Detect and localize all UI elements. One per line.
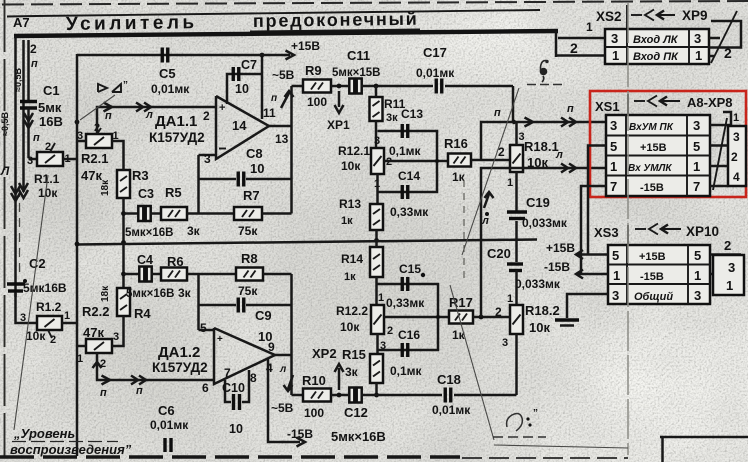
svg-text:С12: С12 [344,405,368,420]
svg-text:5мк: 5мк [38,100,62,115]
resistor R2.1 [86,134,112,148]
svg-text:10: 10 [250,161,264,176]
wire C3 line [124,212,140,215]
svg-text:R2.2: R2.2 [82,304,109,319]
svg-text:-15В: -15В [287,427,313,441]
svg-text:3: 3 [374,135,380,147]
svg-text:С7: С7 [241,58,257,72]
node ch2 to XS1 [481,168,606,317]
svg-text:R8: R8 [241,251,258,266]
svg-text:5мк×16В: 5мк×16В [125,227,173,239]
input line arrows DA1.2 [102,376,111,385]
wire XS1 +15V [588,146,606,255]
capacitor C17 [435,79,438,94]
svg-text:С5: С5 [159,66,176,81]
svg-text:3: 3 [502,337,508,349]
svg-text:ДА1.2: ДА1.2 [158,344,200,361]
svg-text:5: 5 [612,248,619,263]
wire C4 line [124,273,141,276]
svg-text:R15: R15 [342,347,366,362]
border heavy top [14,31,558,36]
wire R2.2 to R4 [112,316,124,346]
svg-text:R6: R6 [167,254,184,269]
op-amp DA1.1 [216,96,269,159]
pencil diagonal lower [450,285,494,440]
svg-text:0,01мк: 0,01мк [150,418,189,432]
wire C8 line [199,178,237,181]
wire R15 to outline [375,383,378,395]
svg-text:2: 2 [387,325,393,337]
wire bus to R2.2 [77,345,86,348]
svg-text:1: 1 [77,353,83,365]
wiper line R12.2 to R17 [384,316,449,319]
title2 underline [250,30,420,32]
wire R18.1 to C19 [515,172,518,211]
capacitor C10 loop [225,380,231,402]
svg-text:ХР10: ХР10 [686,224,719,239]
svg-text:ХS2: ХS2 [596,9,622,24]
C13 C14 loop [378,131,438,192]
svg-text:8: 8 [250,371,257,385]
resistor R5 [161,207,187,220]
svg-text:”: ” [533,408,538,419]
op-amp DA1.2 output [275,354,292,357]
trimmer R18.2 [510,305,523,334]
supply pin 11 wire [261,55,264,119]
svg-text:~5В: ~5В [271,401,294,415]
wire R7 to out [262,212,292,215]
wire XS2 pin2 [556,54,605,57]
svg-text:С17: С17 [423,45,447,60]
node ch1 to XS1 [481,122,606,160]
svg-text:1: 1 [612,48,619,63]
svg-text:≈0,5В: ≈0,5В [0,112,10,136]
svg-text:13: 13 [275,132,289,146]
svg-text:9: 9 [268,340,275,354]
svg-text:R18.2: R18.2 [525,303,560,318]
trimmer R12.1 [371,148,384,174]
capacitor C7 loop [227,74,262,104]
svg-text:С13: С13 [401,107,423,121]
svg-text:Л: Л [0,164,10,178]
resistor R1.1 [37,152,63,166]
wire C9 to out [246,304,292,307]
svg-text:1: 1 [64,310,70,322]
test point arrow mid [484,194,489,208]
svg-text:5мк16В: 5мк16В [23,281,67,295]
svg-text:С3: С3 [138,187,154,201]
svg-text:10к: 10к [340,320,360,334]
svg-text:-15В: -15В [544,260,570,274]
wiper R2.2 down [97,353,214,380]
svg-text:л: л [279,364,287,375]
svg-text:С6: С6 [158,403,175,418]
wire C2 to R1.2 [16,293,38,323]
svg-text:R10: R10 [302,373,326,388]
svg-text:2: 2 [724,238,731,253]
connector XP9 pins [709,37,720,40]
svg-text:п: п [271,93,277,104]
corner down to node [512,86,515,122]
wire C17 to corner [445,85,513,88]
svg-text:3: 3 [612,288,619,303]
table XS2 [605,29,709,64]
annotation diagonal level [14,175,48,430]
wire C9 line [199,304,237,307]
svg-text:0,33мк: 0,33мк [386,296,425,310]
common mid line [77,240,537,245]
svg-text:0,033мк: 0,033мк [522,216,568,230]
border heavy corner right [555,31,558,57]
border heavy left vertical [14,36,17,283]
svg-text:10: 10 [235,82,249,96]
svg-text:3: 3 [20,312,26,324]
svg-text:5мк×15В: 5мк×15В [332,67,380,79]
resistor R9 [303,80,331,93]
bass squiggle [507,414,523,431]
clef squiggle [540,68,548,76]
svg-text:5мк×16В: 5мк×16В [331,429,386,444]
svg-text:+15В: +15В [640,142,667,154]
svg-text:п: п [494,107,501,119]
svg-text:R17: R17 [449,295,473,310]
svg-text:R13: R13 [339,197,361,211]
wire R1.1 to bus [63,158,77,161]
svg-text:л: л [481,215,489,227]
svg-text:R9: R9 [305,63,322,78]
svg-text:С1: С1 [43,83,60,98]
svg-text:ХР9: ХР9 [682,8,708,23]
wire R12.1 to R13 [376,174,379,204]
connector XS3 symbol [635,228,646,230]
wire C19 to midline [515,221,518,262]
connector XP10 pins [710,253,741,256]
capacitor C20 [507,262,523,265]
connector XP8 pins [710,124,731,127]
connector XS2 symbol [631,14,642,16]
resistor R16 [448,154,471,167]
svg-text:л: л [555,149,563,161]
annotation line head [80,95,115,120]
pencil diagonal upper [462,88,519,255]
svg-text:R5: R5 [165,185,182,200]
svg-text:3к: 3к [178,286,192,300]
input line arrows DA1.1 [104,103,113,112]
resistor R7 [234,207,262,220]
svg-text:7: 7 [224,366,231,380]
resistor R6 [161,268,187,281]
svg-text:С20: С20 [487,246,511,261]
svg-text:R14: R14 [341,252,363,266]
capacitor C2 [7,282,25,285]
svg-text:R1.2: R1.2 [36,300,62,314]
svg-text:предоконечный: предоконечный [253,9,419,31]
wire C20 to R18.2 [515,270,518,305]
svg-text:Вход ЛК: Вход ЛК [633,34,679,46]
svg-text:Вход ПК: Вход ПК [633,51,679,63]
svg-text:2: 2 [203,109,210,123]
fold line vertical [627,3,629,455]
wiper line R12.1 to R16 [384,160,448,163]
capacitor C13 [401,124,404,138]
svg-text:1к: 1к [344,271,356,283]
svg-text:„Уровень: „Уровень [13,426,75,441]
svg-text:6: 6 [202,381,209,395]
svg-text:R3: R3 [132,168,149,183]
capacitor C3 [138,206,143,221]
svg-text:3к: 3к [187,224,201,238]
capacitor C1 [27,40,30,101]
wire C2 feed [14,283,17,297]
svg-text:Общий: Общий [634,291,673,303]
svg-text:1: 1 [507,177,513,189]
svg-text:10: 10 [229,422,243,436]
svg-text:75к: 75к [238,284,258,298]
border bottom dashed [0,455,460,459]
wire C1 to R1.1 [29,158,38,161]
resistor R2.2 [86,339,112,353]
capacitor C4 [139,267,144,282]
frame left edge [4,0,6,458]
op-amp DA1.2 [214,328,275,384]
svg-text:3: 3 [733,130,740,144]
svg-text:5: 5 [610,139,617,154]
capacitor C5 [161,48,164,63]
svg-text:воспроизведения”: воспроизведения” [10,442,132,457]
capacitor C14 [401,185,404,199]
svg-text:100: 100 [307,95,327,109]
svg-text:С10: С10 [222,381,245,395]
C15 C16 loop [378,284,439,350]
wire C8 to out [246,178,292,181]
wire R2.1 to R3 [112,141,124,170]
svg-text:47к: 47к [83,325,104,340]
capacitor C11 [349,79,354,94]
wire out to R10 [292,394,304,397]
svg-text:3: 3 [610,118,617,133]
border top dashed edge [2,1,748,5]
svg-text:С14: С14 [398,169,420,183]
resistor R8 [236,268,263,281]
wire bus to R2.1 [77,140,86,143]
svg-text:18к: 18к [100,285,111,302]
svg-text:-15В: -15В [640,271,664,283]
stray dot [421,273,425,277]
title underline thin [7,15,36,18]
wire R5 to node [187,212,199,215]
resistor R15 [370,354,383,383]
wire R10 to C12 [331,394,348,397]
test point XP2 [338,368,341,390]
svg-text:5: 5 [694,248,701,263]
node vertical pin5 [197,274,200,330]
ground symbol [555,318,579,321]
+15V rail [578,253,608,256]
svg-text:3: 3 [694,31,701,46]
svg-text:С15: С15 [399,262,421,276]
svg-text:л: л [145,109,153,121]
-15V rail [578,273,608,276]
resistor R10 [303,389,331,402]
svg-text:1: 1 [733,112,739,124]
dash under clef [527,84,562,86]
highlight red box [590,91,746,197]
wire Obshij ground [567,294,608,318]
svg-text:3: 3 [27,155,33,167]
svg-text:п: п [31,58,38,70]
svg-text:ХS1: ХS1 [595,99,620,114]
svg-text:R2.1: R2.1 [81,151,108,166]
wire R9 to C11 [331,85,348,88]
svg-text:ДА1.1: ДА1.1 [155,113,197,130]
wire R17 to R18.2 [473,316,511,319]
svg-text:7: 7 [693,179,700,194]
wire R14 to R12.2 [375,277,378,305]
svg-text:R4: R4 [134,306,151,321]
svg-text:4: 4 [733,170,740,184]
svg-text:0,01мк: 0,01мк [151,82,190,96]
pin4 supply wire [268,358,300,442]
wire R12.2 to R15 [376,334,379,354]
svg-text:3: 3 [728,260,735,275]
svg-text:1: 1 [726,278,733,293]
wire C18 to R18.2 [454,394,517,397]
resistor R4 [117,288,130,316]
wire R3 through junctions [122,198,125,288]
svg-text:~5В: ~5В [272,68,295,82]
output vertical ch1 [290,86,293,214]
svg-text:R18.1: R18.1 [524,139,559,154]
svg-text:С4: С4 [137,253,153,267]
arrows to XS1 row3 [561,164,568,173]
svg-text:2: 2 [724,45,732,61]
svg-text:1: 1 [695,48,702,63]
+15V supply line [77,54,290,57]
svg-text:2: 2 [570,40,578,56]
pencil dash vertical [463,180,465,282]
dash under squiggle [493,436,546,438]
svg-text:0,33мк: 0,33мк [390,205,429,219]
svg-text:+15В: +15В [639,251,666,263]
svg-text:п: п [105,110,112,122]
svg-text:≈0,5В: ≈0,5В [13,68,23,92]
svg-text:10к: 10к [341,159,361,173]
svg-text:3: 3 [113,331,119,343]
svg-text:3: 3 [694,288,701,303]
svg-text:75к: 75к [238,224,258,238]
svg-text:5мк×16В: 5мк×16В [126,288,174,300]
wire R13 to midline [375,230,378,241]
svg-text:0,1мк: 0,1мк [389,144,422,158]
svg-text:0,01мк: 0,01мк [416,66,455,80]
svg-text:ХS3: ХS3 [594,225,619,240]
svg-text:п: п [136,385,143,397]
wire node down [515,122,518,145]
resistor R17 [449,311,473,324]
svg-text:ХР1: ХР1 [327,118,350,132]
svg-text:”: ” [123,80,128,91]
wire R1.2 to bus [62,322,77,325]
svg-text:А8-ХР8: А8-ХР8 [687,95,733,110]
table XS3 [608,245,710,304]
svg-text:2: 2 [30,42,37,56]
svg-text:3: 3 [611,31,618,46]
svg-text:Вх УМЛК: Вх УМЛК [628,163,672,174]
svg-text:С16: С16 [398,328,420,342]
svg-text:С18: С18 [437,372,461,387]
resistor R14 [370,247,383,277]
node bus top channel [75,120,80,125]
svg-text:1: 1 [610,159,617,174]
wire C12 to C18 [361,394,442,397]
svg-text:3: 3 [204,152,211,166]
capacitor C9 [237,298,240,313]
svg-text:0,01мк: 0,01мк [432,403,471,417]
resistor R11 [370,97,383,121]
svg-text:1: 1 [694,268,701,283]
svg-text:5: 5 [200,321,207,335]
svg-text:п: п [567,103,574,115]
connector XS1 symbol [634,100,645,102]
wire XS1 -15V [581,186,606,274]
svg-text:R12.1: R12.1 [338,144,370,158]
svg-text:С19: С19 [526,195,550,210]
wire node to R7 [199,212,235,215]
capacitor C18 [444,388,447,403]
svg-text:-15В: -15В [640,182,664,194]
main vertical bus [76,54,79,456]
wire C3 to R5 [150,212,161,215]
head symbol [98,84,107,92]
svg-text:11: 11 [263,106,276,120]
svg-text:С9: С9 [255,308,272,323]
svg-text:Усилитель: Усилитель [66,12,198,35]
svg-text:1: 1 [586,20,593,34]
svg-text:2: 2 [731,150,738,164]
svg-text:С11: С11 [347,48,370,63]
resistor R1.2 [37,316,62,330]
adjacent frame bottom-right [660,436,748,439]
svg-text:п: п [33,132,40,144]
input wire arrows [19,183,28,191]
svg-text:R7: R7 [243,188,260,203]
trimmer R18.1 [510,145,523,172]
wire R16 to R18.1 [471,159,511,162]
capacitor C12 [349,388,354,403]
svg-text:К157УД2: К157УД2 [152,360,208,375]
svg-text:10к: 10к [529,320,550,335]
svg-text:14: 14 [232,118,247,133]
wire C4 to R6 [151,273,161,276]
table XS1 [606,115,710,196]
svg-text:+15В: +15В [291,39,320,53]
svg-text:3: 3 [693,118,700,133]
svg-text:1: 1 [693,159,700,174]
wire XS2 pin1 [558,37,605,40]
svg-text:R16: R16 [444,136,468,151]
wire R6 to node [187,273,199,276]
svg-text:1к: 1к [341,215,353,227]
wire out to R9 [292,85,304,88]
capacitor C8 [237,172,240,187]
svg-text:3к: 3к [386,112,398,124]
svg-text:1: 1 [507,293,513,305]
wire R18.2 down [515,334,518,395]
svg-text:16В: 16В [39,114,63,129]
wiper R2.1 to input line [97,107,216,134]
svg-text:10к: 10к [38,186,58,200]
svg-text:+: + [217,334,223,345]
